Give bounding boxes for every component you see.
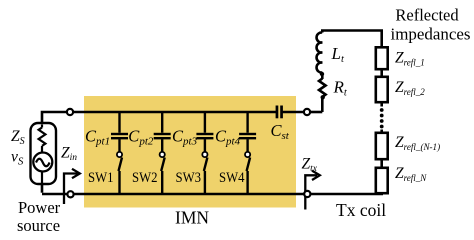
svg-text:Zrefl_N: Zrefl_N [395,165,427,183]
svg-text:SW1: SW1 [88,170,114,186]
svg-text:Power: Power [18,198,61,217]
svg-text:SW4: SW4 [219,170,245,186]
svg-text:Zrefl_2: Zrefl_2 [395,79,425,97]
svg-text:SW2: SW2 [132,170,158,186]
svg-text:IMN: IMN [175,208,209,228]
svg-text:impedances: impedances [391,25,471,44]
svg-text:Reflected: Reflected [395,6,459,25]
svg-text:Zrefl_(N-1): Zrefl_(N-1) [395,134,440,152]
svg-text:Zin: Zin [61,145,77,164]
svg-text:Rt: Rt [333,78,348,99]
svg-text:ZS: ZS [11,128,25,147]
svg-text:SW3: SW3 [176,170,202,186]
svg-text:Zrefl_1: Zrefl_1 [395,50,425,68]
svg-text:vS: vS [11,149,24,168]
svg-text:Tx coil: Tx coil [336,200,386,220]
svg-text:source: source [17,216,60,235]
svg-text:Lt: Lt [331,44,345,65]
svg-text:Ztx: Ztx [302,156,318,175]
